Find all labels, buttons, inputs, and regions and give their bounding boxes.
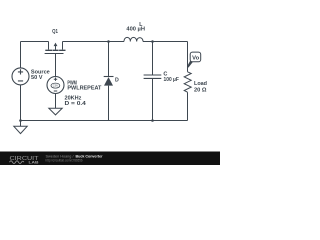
svg-text:CSV: CSV [53, 84, 58, 88]
svg-text:D = 0.4: D = 0.4 [65, 101, 86, 107]
svg-text:Vo: Vo [192, 55, 199, 61]
svg-text:50 V: 50 V [31, 75, 43, 81]
svg-text:LAB: LAB [29, 159, 39, 164]
svg-text:400 µH: 400 µH [126, 27, 145, 33]
svg-text:Load: Load [194, 81, 207, 87]
svg-text:20 Ω: 20 Ω [194, 87, 207, 93]
svg-text:Q1: Q1 [52, 29, 58, 35]
svg-text:D: D [115, 78, 119, 84]
svg-text:100 µF: 100 µF [164, 77, 179, 83]
svg-text:PWLREPEAT: PWLREPEAT [67, 85, 102, 91]
svg-text:http://circuitlab.com/c786556: http://circuitlab.com/c786556 [46, 159, 83, 163]
